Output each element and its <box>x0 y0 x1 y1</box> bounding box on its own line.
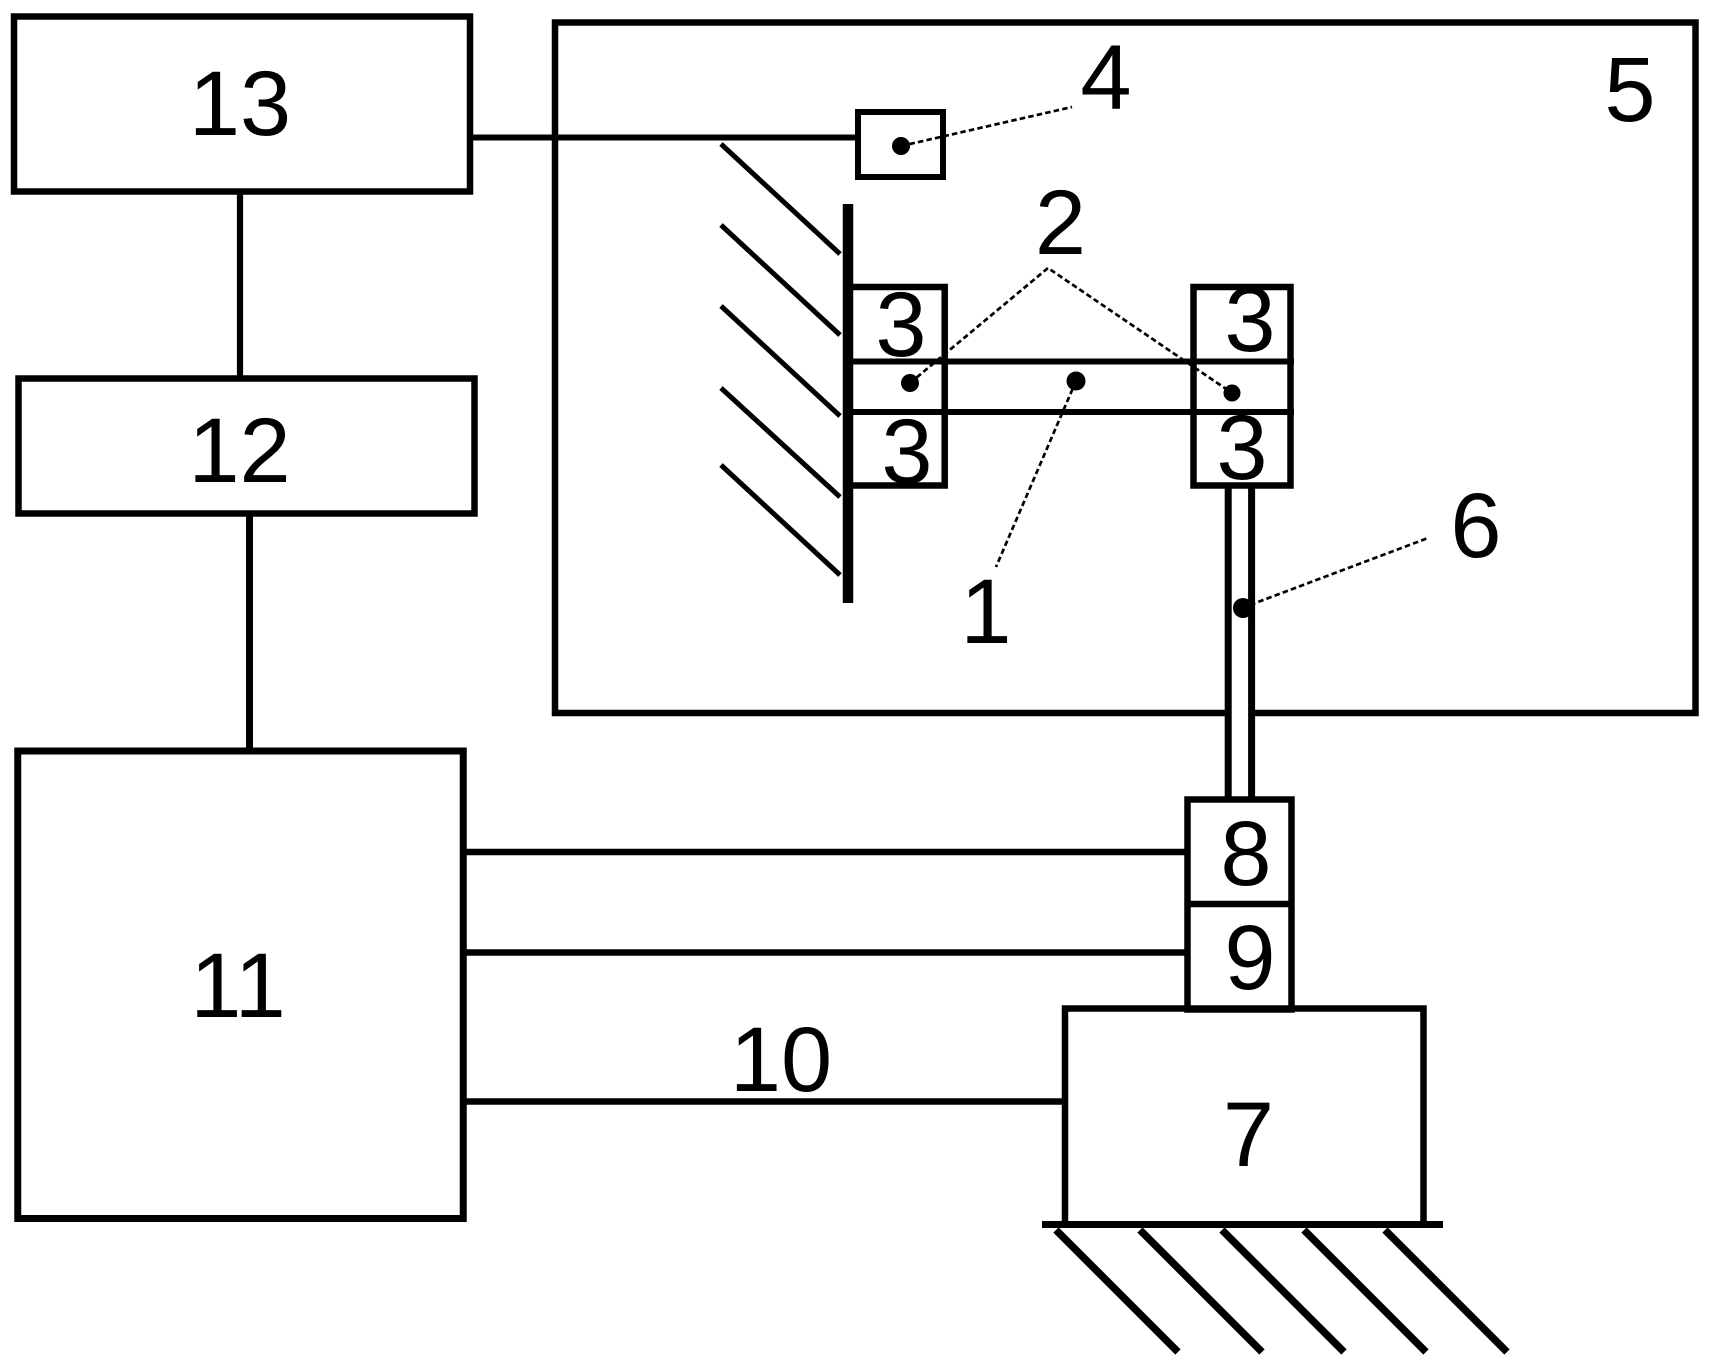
svg-text:9: 9 <box>1224 907 1275 1009</box>
svg-text:12: 12 <box>188 400 290 502</box>
svg-text:5: 5 <box>1604 39 1655 141</box>
svg-text:13: 13 <box>189 53 291 155</box>
svg-text:10: 10 <box>730 1009 832 1111</box>
svg-text:6: 6 <box>1450 475 1501 577</box>
svg-text:4: 4 <box>1080 27 1131 129</box>
svg-text:2: 2 <box>1035 172 1086 274</box>
svg-text:11: 11 <box>190 935 286 1037</box>
svg-text:1: 1 <box>960 561 1011 663</box>
svg-text:7: 7 <box>1223 1084 1274 1186</box>
svg-text:3: 3 <box>1224 269 1275 371</box>
svg-text:3: 3 <box>881 401 932 503</box>
svg-text:3: 3 <box>1216 397 1267 499</box>
svg-text:8: 8 <box>1220 803 1271 905</box>
svg-text:3: 3 <box>875 274 926 376</box>
